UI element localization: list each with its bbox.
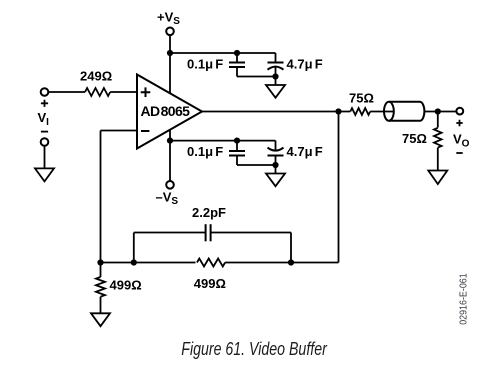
svg-text:AD8065: AD8065 [141,103,191,119]
svg-text:4.7μF: 4.7μF [287,57,323,72]
svg-text:0.1μF: 0.1μF [187,57,223,72]
svg-text:499Ω: 499Ω [194,276,226,291]
svg-text:75Ω: 75Ω [402,131,427,146]
svg-text:0.1μF: 0.1μF [187,144,223,159]
svg-text:249Ω: 249Ω [80,69,112,84]
svg-text:2.2pF: 2.2pF [192,205,226,220]
svg-text:75Ω: 75Ω [349,91,374,106]
svg-text:4.7μF: 4.7μF [287,144,323,159]
svg-text:Figure 61. Video Buffer: Figure 61. Video Buffer [181,339,327,359]
svg-text:02916-E-061: 02916-E-061 [457,273,469,325]
svg-text:499Ω: 499Ω [110,278,142,293]
